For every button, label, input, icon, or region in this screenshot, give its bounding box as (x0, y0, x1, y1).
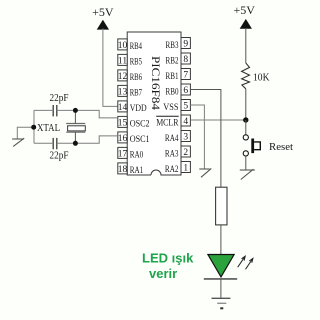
svg-text:10: 10 (118, 41, 128, 51)
earth ground bottom bar1 (212, 297, 231, 299)
svg-text:10K: 10K (253, 71, 270, 83)
resistor R2 body (216, 187, 227, 225)
pin 17 box (118, 147, 128, 159)
svg-text:VDD: VDD (130, 103, 147, 113)
svg-text:13: 13 (118, 87, 128, 97)
pin 18 box (118, 163, 128, 175)
svg-text:12: 12 (118, 72, 128, 82)
svg-text:RB6: RB6 (130, 72, 143, 82)
wire VSS pin5 to ground (190, 105, 204, 169)
ground (VSS) (199, 168, 211, 177)
earth ground bottom bar3 (220, 307, 223, 309)
node dot crystal top (73, 108, 78, 113)
svg-text:PIC16F84: PIC16F84 (149, 56, 161, 110)
wire MCLR pin4 to junction (190, 119, 245, 121)
svg-text:6: 6 (183, 86, 188, 96)
resistor R1 zigzag (242, 63, 250, 89)
svg-text:RB5: RB5 (130, 57, 143, 67)
svg-text:LED ışık: LED ışık (142, 250, 194, 265)
svg-text:XTAL: XTAL (37, 123, 60, 134)
wire R1 to junction (245, 89, 247, 120)
capacitor C1 22pF (top) (53, 105, 57, 116)
node dot crystal left (31, 125, 36, 130)
pin 8 box (181, 53, 190, 65)
node dot crystal bottom (73, 141, 78, 146)
wire node to OSC1 pin16 (99, 136, 118, 144)
wire RB0 pin6 to resistor R2 (190, 90, 221, 188)
pin 13 box (118, 85, 128, 97)
pin 7 box (181, 69, 190, 81)
wire +5V left to VDD pin14 (103, 29, 118, 107)
svg-text:17: 17 (118, 149, 128, 159)
wire crystal branch bottom (74, 132, 76, 143)
switch SW1 terminal bottom (243, 151, 248, 156)
wire junction to switch (245, 120, 247, 135)
svg-text:2: 2 (183, 148, 188, 158)
svg-text:Reset: Reset (269, 142, 293, 153)
LED D1 cathode bar (204, 278, 237, 280)
svg-text:RB1: RB1 (166, 71, 179, 81)
svg-text:14: 14 (118, 103, 128, 113)
svg-text:RA2: RA2 (165, 164, 179, 174)
pin 4 box (181, 115, 190, 127)
svg-text:7: 7 (183, 70, 188, 80)
svg-text:18: 18 (118, 165, 128, 175)
pin 2 box (181, 146, 190, 158)
node junction dot MCLR/R1/switch (243, 117, 248, 122)
wire +5V right to resistor R1 (245, 28, 247, 63)
svg-text:RA0: RA0 (130, 150, 144, 160)
pin 16 box (118, 132, 128, 144)
pin 14 box (118, 101, 128, 113)
wire loop top right segment (57, 109, 99, 111)
svg-text:verir: verir (149, 266, 177, 281)
svg-text:RB0: RB0 (166, 87, 179, 97)
crystal X1 symbol (66, 124, 85, 133)
pin 11 box (118, 54, 128, 66)
switch SW1 actuator (251, 139, 260, 154)
svg-text:RB3: RB3 (166, 40, 179, 50)
wire switch to ground (245, 156, 247, 170)
svg-text:RB4: RB4 (130, 41, 143, 51)
svg-text:16: 16 (118, 134, 128, 144)
svg-text:+5V: +5V (233, 3, 255, 17)
pin 6 box (181, 84, 190, 96)
wire loop top left segment (34, 109, 53, 111)
wire node to OSC2 pin15 (99, 110, 118, 118)
pin 12 box (118, 70, 128, 82)
svg-text:22pF: 22pF (50, 92, 69, 104)
LED light arrow 2 (246, 258, 253, 269)
wire LED to earth ground (220, 279, 222, 298)
earth ground bottom bar2 (217, 302, 226, 304)
svg-text:RA3: RA3 (165, 149, 179, 159)
LED light arrow 1 (238, 256, 246, 267)
wire loop bottom left segment (34, 142, 53, 144)
svg-text:8: 8 (183, 55, 188, 65)
wire loop bottom right segment (57, 142, 99, 144)
ground (reset) (240, 169, 255, 179)
svg-text:OSC1: OSC1 (130, 134, 150, 144)
svg-text:1: 1 (183, 163, 188, 173)
svg-text:MCLR: MCLR (156, 118, 178, 128)
pin 3 box (181, 131, 190, 143)
pin 9 box (181, 38, 190, 50)
wire R2 to LED (220, 225, 222, 255)
pin label MCLR with overline (156, 116, 179, 127)
svg-text:5: 5 (183, 101, 188, 111)
power +5V arrow (left) (97, 20, 108, 29)
wire crystal loop left vertical (33, 110, 35, 143)
pin 15 box (118, 116, 128, 128)
svg-text:RB7: RB7 (130, 88, 143, 98)
svg-text:9: 9 (183, 39, 188, 49)
capacitor C2 22pF (bottom) (53, 138, 57, 149)
LED D1 triangle (208, 255, 234, 277)
pin 10 box (118, 39, 128, 51)
svg-text:3: 3 (183, 132, 188, 142)
IC U1 PIC16F84 body with bottom notch (127, 32, 181, 175)
pin 5 box (181, 100, 190, 112)
ground (crystal) (12, 138, 24, 146)
pin 1 box (181, 162, 190, 174)
svg-text:RA1: RA1 (130, 165, 144, 175)
wire crystal branch top (74, 110, 76, 123)
svg-text:+5V: +5V (92, 5, 114, 19)
svg-text:11: 11 (118, 56, 127, 66)
svg-text:OSC2: OSC2 (130, 119, 150, 129)
wire ground tap from loop (17, 127, 33, 139)
svg-text:15: 15 (118, 118, 128, 128)
svg-text:RA4: RA4 (165, 133, 179, 143)
svg-text:22pF: 22pF (50, 150, 69, 162)
svg-text:RB2: RB2 (166, 56, 179, 66)
svg-text:VSS: VSS (163, 102, 178, 112)
switch SW1 terminal top (243, 135, 248, 140)
svg-text:4: 4 (183, 117, 188, 127)
power +5V arrow (right) (240, 20, 251, 29)
